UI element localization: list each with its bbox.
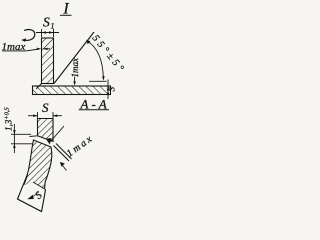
lower curved sheet section bbox=[18, 140, 52, 212]
dimension label S1 bbox=[43, 15, 55, 31]
curved leader arrow bbox=[21, 29, 35, 41]
bottom view: upper sheet section bbox=[38, 119, 54, 142]
S thickness dimension bbox=[107, 80, 110, 100]
dimension line diagonal bbox=[51, 126, 65, 142]
1max label (gap at wall) bbox=[2, 41, 26, 53]
leader with shelf for 1max bbox=[2, 48, 50, 51]
extension line upper (1,3 dim) bbox=[11, 133, 31, 135]
weld bevel line 55 deg bbox=[54, 32, 94, 84]
1,3 dimension line with arrows bbox=[13, 124, 16, 153]
angle dimension arc bbox=[86, 40, 105, 81]
gap dimension 1max (bottom view) bbox=[46, 126, 72, 171]
svg-text:S: S bbox=[43, 15, 50, 30]
horizontal extension line for angle bbox=[89, 80, 107, 82]
1max gap label vertical bbox=[70, 58, 80, 86]
vertical plate section S1 bbox=[42, 38, 54, 84]
angle value 55 +-5 bbox=[90, 33, 128, 76]
white tip of sheet end bbox=[18, 182, 46, 212]
svg-text:1max: 1max bbox=[70, 58, 80, 78]
svg-text:S: S bbox=[42, 100, 49, 115]
view label I bbox=[60, 1, 72, 18]
dimension S1 lines bbox=[36, 29, 59, 37]
section label A-A bbox=[79, 97, 109, 112]
bottom plate section S bbox=[33, 86, 111, 95]
flange tail at plate bottom left bbox=[36, 84, 41, 89]
tick across sheet end for S bbox=[33, 182, 46, 190]
svg-text:S: S bbox=[107, 87, 117, 92]
extension lines of gap bbox=[54, 146, 70, 162]
lower outside arrow of gap dimension bbox=[61, 163, 67, 171]
svg-text:A - A: A - A bbox=[80, 97, 107, 112]
bottom view: S dimension lines bbox=[28, 112, 62, 118]
extension of sheet bottom edge bbox=[30, 135, 38, 138]
extension line lower (1,3 dim) bbox=[11, 143, 33, 145]
small arrow at sheet end bbox=[27, 195, 34, 200]
